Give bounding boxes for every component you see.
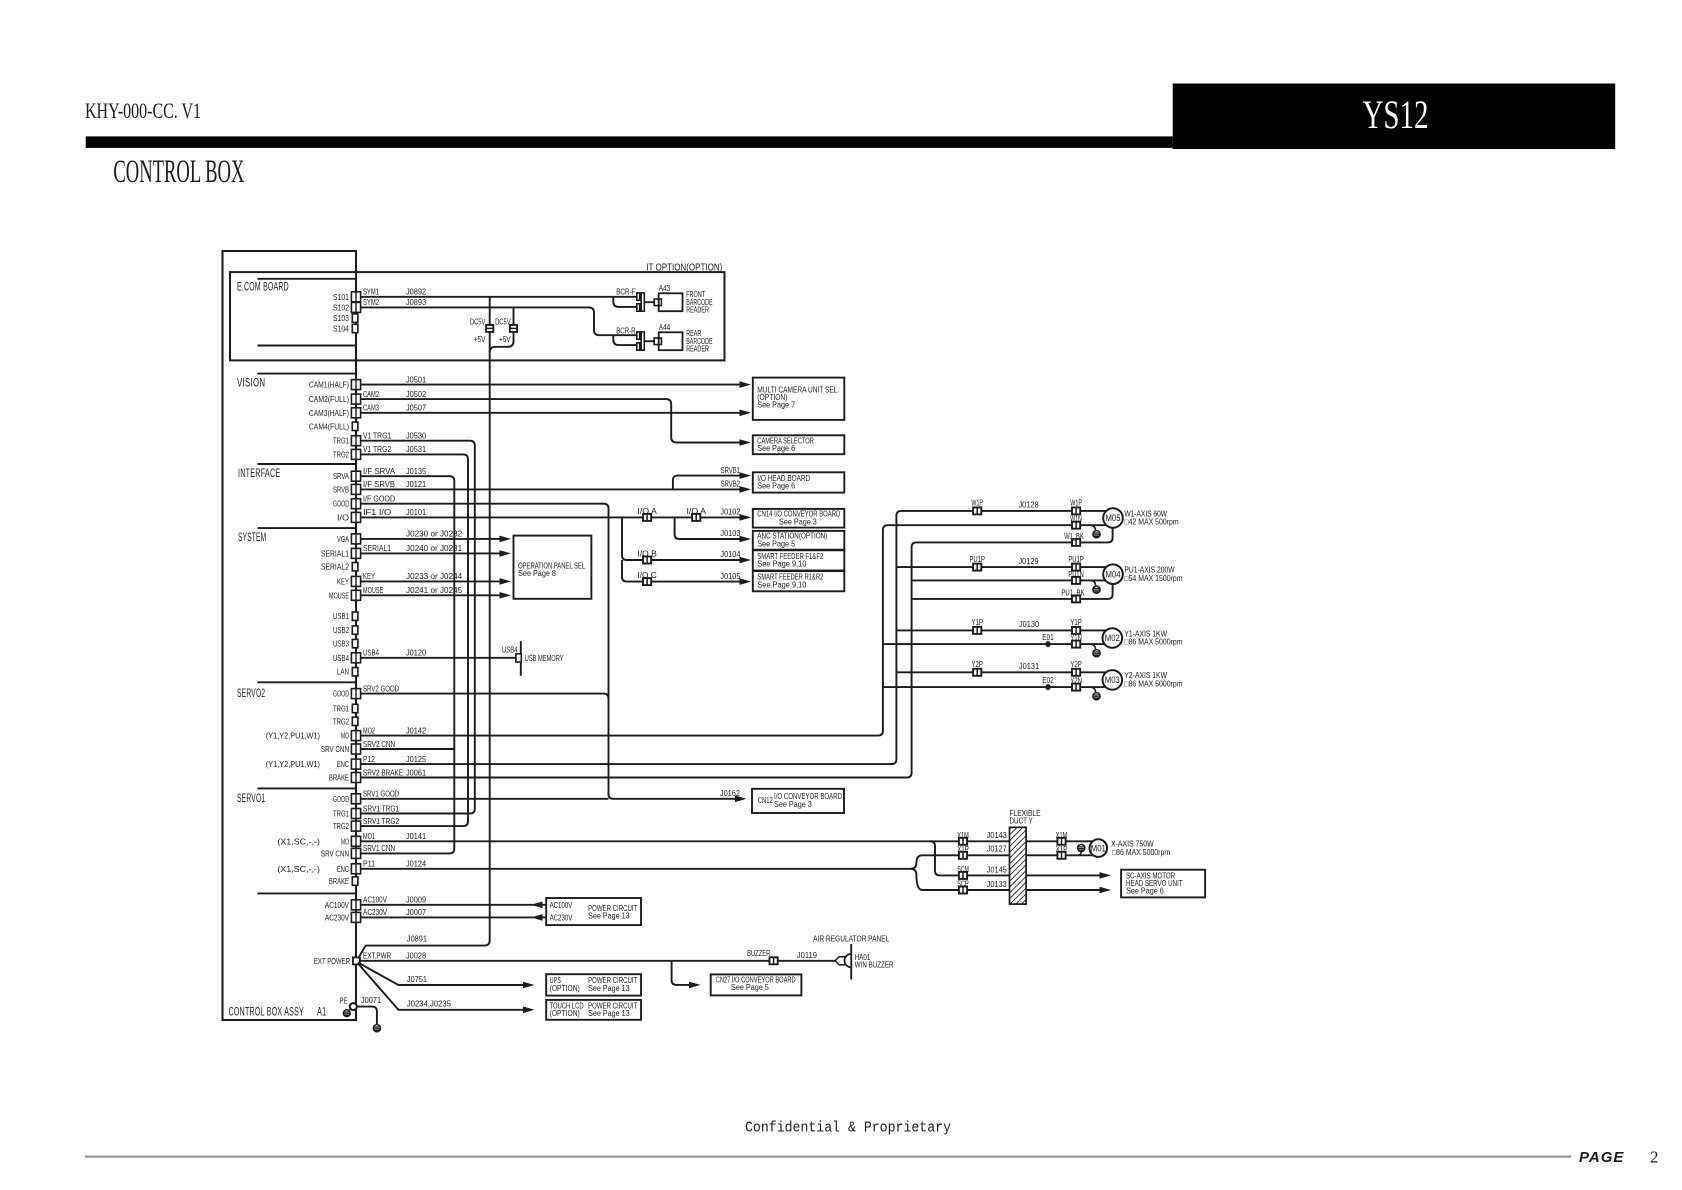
svg-text:TRG1: TRG1 bbox=[333, 704, 349, 714]
svg-text:SERIAL2: SERIAL2 bbox=[321, 562, 349, 572]
pin AC100V y=904.8 bbox=[351, 900, 360, 910]
svg-text:M03: M03 bbox=[1105, 675, 1120, 685]
svg-text:E.COM BOARD: E.COM BOARD bbox=[237, 282, 289, 294]
wire DC5V branch from SYM2 bbox=[490, 307, 514, 352]
svg-text:SRV1 TRG1: SRV1 TRG1 bbox=[363, 803, 399, 813]
connector I/O A no1 bbox=[643, 514, 651, 521]
svg-text:CAM2(FULL): CAM2(FULL) bbox=[309, 394, 349, 404]
pin VGA y=538.9 bbox=[351, 534, 360, 544]
wire BCR-R to A44 bbox=[644, 340, 654, 342]
pin BRAKE y=881.1 bbox=[352, 877, 358, 885]
svg-text:V1 TRG1: V1 TRG1 bbox=[363, 431, 391, 441]
svg-text:AC100V: AC100V bbox=[550, 901, 573, 910]
ground at M02 bbox=[1090, 644, 1096, 649]
svg-text:SRV1 CNN: SRV1 CNN bbox=[363, 843, 395, 853]
svg-text:J0162: J0162 bbox=[720, 788, 740, 798]
connector Y2N bbox=[1072, 684, 1080, 691]
svg-text:See Page 7: See Page 7 bbox=[757, 401, 795, 410]
svg-text:TRG2: TRG2 bbox=[333, 449, 349, 459]
wire SRV2 CNN joins rail bbox=[361, 748, 455, 750]
svg-text:See Page 5: See Page 5 bbox=[757, 539, 795, 548]
wire rail C branch PU1N bbox=[912, 579, 1106, 581]
UPS power circuit box bbox=[546, 974, 641, 995]
pin BRAKE y=777.5 bbox=[351, 773, 360, 783]
svg-text:DC5V: DC5V bbox=[495, 318, 511, 327]
svg-text:USB1: USB1 bbox=[333, 611, 349, 621]
camera selector box bbox=[753, 435, 845, 454]
svg-text:SCM: SCM bbox=[957, 865, 969, 874]
wire I/F GOOD down rail to CN12 bbox=[361, 504, 742, 799]
svg-text:J0121: J0121 bbox=[406, 479, 426, 489]
svg-text:□54 MAX 1500rpm: □54 MAX 1500rpm bbox=[1124, 574, 1182, 583]
wire V1 TRG2 J0531 loop to SRV1 TRG2 bbox=[361, 454, 469, 826]
svg-text:J0131: J0131 bbox=[1019, 661, 1039, 671]
svg-text:□86 MAX 5000rpm: □86 MAX 5000rpm bbox=[1124, 638, 1182, 647]
pin MOUSE y=595.3 bbox=[351, 590, 360, 600]
rear barcode reader box bbox=[659, 332, 683, 350]
svg-text:AIR REGULATOR PANEL: AIR REGULATOR PANEL bbox=[813, 933, 889, 943]
wire rail A branch Y1N bbox=[883, 643, 1105, 645]
svg-text:See Page 13: See Page 13 bbox=[588, 1009, 630, 1018]
svg-text:W1N: W1N bbox=[1070, 515, 1082, 524]
connector I/O C bbox=[643, 578, 651, 585]
junction dot E02 bbox=[1045, 684, 1050, 690]
ground at PE terminal bbox=[348, 1009, 351, 1011]
svg-text:See Page 8: See Page 8 bbox=[518, 569, 556, 578]
svg-text:USB2: USB2 bbox=[333, 625, 349, 635]
svg-text:Y2P: Y2P bbox=[1070, 660, 1082, 669]
svg-text:J0120: J0120 bbox=[406, 648, 426, 658]
connector I/O B bbox=[643, 557, 651, 564]
svg-text:CAM3: CAM3 bbox=[363, 403, 379, 413]
svg-text:See Page 5: See Page 5 bbox=[731, 983, 769, 992]
svg-text:E02: E02 bbox=[1042, 676, 1054, 685]
connector BCR-F bbox=[637, 293, 645, 311]
svg-text:KEY: KEY bbox=[337, 576, 349, 586]
svg-text:I/F SRVA: I/F SRVA bbox=[363, 466, 395, 476]
svg-text:I/O: I/O bbox=[337, 512, 349, 522]
touch LCD power circuit box bbox=[546, 1000, 641, 1020]
pin GOOD y=693.6 bbox=[351, 689, 360, 699]
pin MO y=841.3 bbox=[351, 836, 360, 846]
front barcode reader box bbox=[659, 293, 683, 311]
section divider VISION top bbox=[258, 373, 357, 375]
pin S101 y=296.8 bbox=[351, 292, 360, 302]
svg-text:J0124: J0124 bbox=[406, 859, 426, 869]
connector Y2P upstream bbox=[973, 669, 981, 676]
svg-text:J0234,J0235: J0234,J0235 bbox=[407, 999, 451, 1009]
svg-text:I/F SRVB: I/F SRVB bbox=[363, 479, 395, 489]
connector PU1_BK bbox=[1072, 595, 1080, 602]
wire branch to ANC station J0103 bbox=[675, 517, 746, 539]
svg-text:See Page 6: See Page 6 bbox=[1126, 887, 1164, 896]
svg-text:See Page 9,10: See Page 9,10 bbox=[757, 580, 807, 589]
pin GOOD y=798.8 bbox=[351, 794, 360, 804]
svg-text:See Page 6: See Page 6 bbox=[757, 444, 795, 453]
svg-text:SRVB2: SRVB2 bbox=[721, 480, 741, 489]
svg-text:ENC: ENC bbox=[337, 864, 349, 874]
pin LAN y=671.7 bbox=[352, 668, 358, 676]
svg-text:J0071: J0071 bbox=[361, 995, 381, 1005]
svg-text:PE: PE bbox=[340, 996, 348, 1005]
svg-text:PU1N: PU1N bbox=[1068, 570, 1084, 579]
svg-text:USB MEMORY: USB MEMORY bbox=[525, 654, 564, 663]
I/O head board box bbox=[753, 472, 845, 492]
svg-text:SCP: SCP bbox=[957, 880, 969, 889]
svg-text:X1M: X1M bbox=[1056, 831, 1068, 840]
svg-text:S104: S104 bbox=[333, 324, 349, 334]
wire branch to SCM J0145 bbox=[930, 841, 1105, 875]
pin TRG1 y=813.5 bbox=[351, 809, 360, 819]
wire SRVB1 branch bbox=[673, 476, 746, 490]
wire MO1 J0141 to X1M and M01 bbox=[361, 840, 1094, 842]
YS12 model badge bbox=[1173, 84, 1616, 150]
wire branch to I/O B and I/O C bbox=[622, 517, 746, 560]
svg-text:W1_BK: W1_BK bbox=[1064, 532, 1084, 541]
svg-text:SERVO2: SERVO2 bbox=[237, 688, 265, 700]
svg-text:J0028: J0028 bbox=[406, 951, 426, 961]
svg-text:M01: M01 bbox=[1091, 843, 1106, 853]
svg-text:ENC: ENC bbox=[337, 759, 349, 769]
svg-text:S101: S101 bbox=[333, 292, 349, 302]
svg-text:□42 MAX 500rpm: □42 MAX 500rpm bbox=[1124, 518, 1178, 527]
CN14 I/O conveyor board box bbox=[753, 509, 845, 528]
svg-text:PU1_BK: PU1_BK bbox=[1061, 588, 1085, 597]
connector W1_BK bbox=[1072, 539, 1080, 546]
svg-text:X1P: X1P bbox=[1056, 845, 1068, 854]
svg-text:J0133: J0133 bbox=[987, 879, 1007, 889]
pin USB2 y=630.1 bbox=[352, 626, 358, 634]
svg-text:□86 MAX 5000rpm: □86 MAX 5000rpm bbox=[1112, 848, 1170, 857]
wire I/F SRVB to I/O head board SRVB2 bbox=[361, 488, 747, 490]
smart feeder R1R2 box bbox=[753, 571, 845, 591]
svg-text:See Page 6: See Page 6 bbox=[757, 482, 795, 491]
control box assy A1 outline bbox=[223, 251, 357, 1020]
svg-text:SRVB: SRVB bbox=[333, 484, 349, 494]
svg-text:CN12: CN12 bbox=[758, 796, 774, 805]
IT OPTION enclosure box bbox=[230, 272, 725, 360]
svg-text:J0104: J0104 bbox=[720, 549, 740, 559]
connector X1M motorside bbox=[1057, 838, 1065, 845]
svg-text:CAM2: CAM2 bbox=[363, 389, 379, 399]
wire PE to earth bbox=[357, 1007, 377, 1025]
svg-text:E01: E01 bbox=[1042, 633, 1054, 642]
CN27 I/O conveyor board box bbox=[711, 974, 802, 995]
svg-text:SERIAL1: SERIAL1 bbox=[321, 548, 349, 558]
svg-text:USB3: USB3 bbox=[333, 639, 349, 649]
svg-text:(Y1,Y2,PU1,W1): (Y1,Y2,PU1,W1) bbox=[266, 732, 320, 741]
connector PU1P motorside bbox=[1072, 564, 1080, 571]
svg-text:USB4: USB4 bbox=[363, 648, 379, 658]
svg-text:SYM2: SYM2 bbox=[363, 297, 379, 307]
operation panel sel box bbox=[514, 536, 592, 599]
svg-text:VGA: VGA bbox=[337, 534, 349, 544]
connector Y1N bbox=[1072, 641, 1080, 648]
wire AC100V J0009 from power circuit bbox=[361, 904, 547, 906]
svg-text:SRV1 GOOD: SRV1 GOOD bbox=[363, 789, 399, 799]
wire P11 fork down to SCP bbox=[911, 869, 1106, 890]
pin TRG2 y=826.1 bbox=[351, 821, 360, 831]
pin SRV CNN y=749.0 bbox=[351, 744, 360, 754]
svg-text:(X1,SC,-,-): (X1,SC,-,-) bbox=[277, 837, 320, 846]
earth ground symbol bbox=[373, 1025, 380, 1032]
svg-text:GOOD: GOOD bbox=[333, 794, 349, 804]
svg-text:See Page 3: See Page 3 bbox=[779, 517, 817, 526]
svg-text:J0531: J0531 bbox=[406, 444, 426, 454]
wire SERIAL1 to operation panel bbox=[361, 552, 506, 554]
svg-text:J0143: J0143 bbox=[987, 830, 1007, 840]
wire SRV2 BRAKE J0061 rail C to W1_BK PU1N PU1_BK bbox=[361, 528, 1113, 778]
svg-text:(X1,SC,-,-): (X1,SC,-,-) bbox=[277, 865, 320, 874]
svg-text:M04: M04 bbox=[1106, 569, 1121, 579]
svg-text:YS12: YS12 bbox=[1363, 92, 1429, 137]
svg-text:I/O C: I/O C bbox=[637, 571, 656, 580]
svg-text:SRVA: SRVA bbox=[333, 471, 349, 481]
svg-text:TRG2: TRG2 bbox=[333, 821, 349, 831]
svg-text:M05: M05 bbox=[1106, 513, 1121, 523]
PE terminal bbox=[350, 1003, 357, 1010]
pin A44 bbox=[654, 338, 661, 345]
svg-text:LAN: LAN bbox=[337, 667, 349, 677]
connector DC5V no1 bbox=[486, 325, 493, 332]
svg-text:S103: S103 bbox=[333, 313, 349, 323]
pin CAM3(HALF) y=412.8 bbox=[351, 408, 360, 418]
wire rail B branch PU1P bbox=[896, 566, 1105, 568]
svg-text:J0135: J0135 bbox=[406, 466, 426, 476]
connector SCM bbox=[959, 872, 967, 879]
wire J0751 to UPS power circuit bbox=[358, 963, 529, 986]
svg-text:PAGE: PAGE bbox=[1579, 1149, 1624, 1166]
wire I/F SRVA loop to SRV CNN rail bbox=[361, 476, 455, 853]
section divider SERVO2 top bbox=[258, 681, 357, 683]
section divider SERVO1 top bbox=[258, 787, 357, 789]
node DC5V vertical rail bbox=[489, 297, 491, 941]
svg-text:I/O A: I/O A bbox=[637, 507, 657, 516]
pin ENC y=764.1 bbox=[351, 759, 360, 769]
wire MOUSE to operation panel bbox=[361, 594, 506, 596]
svg-text:+5V: +5V bbox=[474, 335, 486, 344]
svg-text:X1M: X1M bbox=[957, 831, 969, 840]
svg-text:SRV1 TRG2: SRV1 TRG2 bbox=[363, 816, 399, 826]
wire IF1 I/O J0101 to CN14 bbox=[361, 516, 747, 518]
svg-text:CONTROL BOX: CONTROL BOX bbox=[113, 154, 244, 190]
wire KEY to operation panel bbox=[361, 580, 506, 582]
wire EXT.PWR J0028 to buzzer bbox=[361, 960, 836, 962]
ground at M01 bbox=[1077, 852, 1082, 856]
svg-text:A43: A43 bbox=[659, 284, 671, 293]
svg-text:W1P: W1P bbox=[1070, 499, 1082, 508]
svg-text:J0893: J0893 bbox=[406, 297, 426, 307]
wire V1 TRG1 J0530 loop to SRV1 TRG1 bbox=[361, 441, 475, 814]
USB memory stick symbol bbox=[520, 641, 522, 676]
svg-text:J0141: J0141 bbox=[406, 831, 426, 841]
wire rail B branch Y2P bbox=[896, 671, 1106, 673]
wire AC230V J0007 from power circuit bbox=[361, 916, 547, 918]
svg-text:I/O A: I/O A bbox=[687, 507, 707, 516]
smart feeder F1F2 box bbox=[753, 550, 845, 570]
svg-text:BRAKE: BRAKE bbox=[329, 876, 349, 886]
pin KEY y=581.4 bbox=[351, 576, 360, 586]
wire rail B branch Y1P bbox=[896, 629, 1106, 631]
wire SYM1 J0892 to BCR-F bbox=[361, 296, 637, 298]
svg-text:AC100V: AC100V bbox=[325, 900, 349, 910]
pin S104 y=328.5 bbox=[352, 324, 358, 332]
multi camera unit sel box bbox=[753, 378, 845, 420]
svg-text:J0501: J0501 bbox=[406, 374, 426, 384]
motor M02 bbox=[1103, 628, 1123, 648]
svg-text:MOUSE: MOUSE bbox=[329, 590, 349, 600]
pin SERIAL2 y=566.7 bbox=[352, 563, 358, 571]
wire SRV2 GOOD joins GOOD rail bbox=[361, 694, 609, 699]
svg-text:+5V: +5V bbox=[499, 335, 511, 344]
svg-text:(OPTION): (OPTION) bbox=[550, 1009, 580, 1018]
wire SYM2 J0893 to BCR-R bbox=[361, 307, 637, 335]
svg-text:IT OPTION(OPTION): IT OPTION(OPTION) bbox=[646, 263, 722, 274]
svg-text:P12: P12 bbox=[363, 754, 375, 764]
junction dot E01 bbox=[1045, 641, 1050, 647]
svg-text:USB4: USB4 bbox=[502, 646, 518, 655]
connector X1P motorside bbox=[1057, 852, 1065, 859]
connector X1M upstream bbox=[959, 838, 967, 845]
svg-text:Y1P: Y1P bbox=[971, 618, 983, 627]
wire CAM3 J0507 to multi camera unit bbox=[361, 412, 747, 414]
pin A43 bbox=[654, 299, 661, 306]
wire J0891 from EXT POWER to DC5V rail bbox=[358, 940, 490, 958]
connector PU1N bbox=[1072, 577, 1080, 584]
wire rail C branch PU1_BK bbox=[912, 584, 1113, 599]
pin USB3 y=643.6 bbox=[352, 639, 358, 647]
svg-text:Y2P: Y2P bbox=[971, 660, 983, 669]
svg-text:SERIAL1: SERIAL1 bbox=[363, 543, 391, 553]
svg-text:J0891: J0891 bbox=[407, 934, 427, 944]
svg-text:Y1N: Y1N bbox=[1070, 634, 1082, 643]
svg-text:A1: A1 bbox=[317, 1007, 326, 1019]
footer rule bbox=[85, 1155, 1571, 1157]
svg-text:CAM4(FULL): CAM4(FULL) bbox=[309, 421, 349, 431]
pin CAM2(FULL) y=399.1 bbox=[351, 394, 360, 404]
pin S103 y=318.1 bbox=[352, 314, 358, 322]
wire BCR-F to A43 bbox=[644, 301, 654, 303]
svg-text:J0061: J0061 bbox=[406, 767, 426, 777]
svg-text:PU1P: PU1P bbox=[1068, 555, 1084, 564]
motor M03 bbox=[1103, 670, 1123, 690]
svg-text:J0125: J0125 bbox=[406, 754, 426, 764]
svg-text:X1P: X1P bbox=[957, 845, 969, 854]
wire J0234 J0235 to touch LCD power circuit bbox=[358, 964, 529, 1010]
svg-text:SRV CNN: SRV CNN bbox=[321, 744, 349, 754]
svg-text:SRV2 BRAKE: SRV2 BRAKE bbox=[363, 767, 403, 777]
svg-text:EXT POWER: EXT POWER bbox=[314, 956, 350, 966]
svg-text:VISION: VISION bbox=[237, 378, 265, 390]
svg-text:A44: A44 bbox=[659, 323, 671, 332]
svg-text:See Page 13: See Page 13 bbox=[588, 984, 630, 993]
svg-text:BCR-R: BCR-R bbox=[616, 327, 635, 336]
pin SRVA y=476.2 bbox=[351, 471, 360, 481]
power circuit box bbox=[546, 898, 641, 925]
svg-text:CAM1(HALF): CAM1(HALF) bbox=[309, 380, 349, 390]
svg-text:TRG1: TRG1 bbox=[333, 809, 349, 819]
svg-text:EXT.PWR: EXT.PWR bbox=[363, 951, 391, 961]
svg-text:DUCT Y: DUCT Y bbox=[1010, 817, 1034, 826]
svg-text:I/O B: I/O B bbox=[637, 550, 657, 559]
svg-text:J0127: J0127 bbox=[987, 844, 1007, 854]
svg-text:See Page 9,10: See Page 9,10 bbox=[757, 560, 807, 569]
connector BUZZER bbox=[770, 957, 778, 964]
svg-text:KHY-000-CC. V1: KHY-000-CC. V1 bbox=[85, 98, 201, 123]
pin TRG1 y=708.5 bbox=[352, 704, 358, 712]
svg-text:Confidential & Proprietary: Confidential & Proprietary bbox=[745, 1120, 951, 1137]
svg-text:SRVB1: SRVB1 bbox=[721, 466, 741, 475]
wire MO2 J0142 rail A to W1N Y1N Y2N bbox=[361, 525, 1107, 735]
svg-text:J0142: J0142 bbox=[406, 725, 426, 735]
svg-text:SRV CNN: SRV CNN bbox=[321, 848, 349, 858]
svg-text:SYSTEM: SYSTEM bbox=[238, 532, 266, 544]
svg-text:READER: READER bbox=[686, 344, 709, 353]
pin SRVB y=489.4 bbox=[351, 484, 360, 494]
svg-text:CAM3(HALF): CAM3(HALF) bbox=[309, 408, 349, 418]
pin MO y=735.6 bbox=[351, 731, 360, 741]
svg-text:KEY: KEY bbox=[363, 571, 375, 581]
connector W1P motorside bbox=[1072, 507, 1080, 514]
pin EXT POWER bbox=[353, 957, 360, 964]
ground at M04 bbox=[1090, 580, 1096, 585]
svg-text:SERVO1: SERVO1 bbox=[237, 793, 265, 805]
air regulator panel boundary bbox=[850, 944, 852, 980]
svg-text:S102: S102 bbox=[333, 302, 349, 312]
svg-text:AC230V: AC230V bbox=[363, 907, 387, 917]
svg-text:J0130: J0130 bbox=[1019, 619, 1039, 629]
wire CAM2 J0502 to camera selector bbox=[361, 399, 747, 442]
connector W1N bbox=[1072, 522, 1080, 529]
svg-text:TRG1: TRG1 bbox=[333, 436, 349, 446]
CN12 I/O conveyor board box bbox=[752, 789, 844, 813]
svg-text:J0009: J0009 bbox=[406, 895, 426, 905]
pin CAM4(FULL) y=426.3 bbox=[352, 422, 358, 430]
pin CAM1(HALF) y=384.6 bbox=[351, 380, 360, 390]
svg-text:(Y1,Y2,PU1,W1): (Y1,Y2,PU1,W1) bbox=[266, 760, 320, 769]
svg-text:MO: MO bbox=[341, 731, 349, 741]
svg-text:I/F GOOD: I/F GOOD bbox=[363, 494, 395, 504]
pin USB1 y=616.2 bbox=[352, 612, 358, 620]
wire branch to CN27 bbox=[672, 961, 695, 985]
svg-text:SRV2 CNN: SRV2 CNN bbox=[363, 739, 395, 749]
svg-text:J0751: J0751 bbox=[407, 974, 427, 984]
pin TRG1 y=440.7 bbox=[351, 436, 360, 446]
svg-text:CONTROL BOX ASSY: CONTROL BOX ASSY bbox=[229, 1007, 304, 1019]
motor M04 bbox=[1103, 564, 1123, 584]
connector Y1P upstream bbox=[973, 627, 981, 634]
svg-text:W1P: W1P bbox=[971, 499, 983, 508]
svg-text:PU1P: PU1P bbox=[969, 555, 985, 564]
wire CAM1 J0501 to multi camera unit bbox=[361, 384, 747, 386]
svg-text:2: 2 bbox=[1650, 1148, 1659, 1167]
svg-text:(OPTION): (OPTION) bbox=[550, 984, 580, 993]
connector W1P upstream bbox=[973, 507, 981, 514]
svg-text:GOOD: GOOD bbox=[333, 499, 349, 509]
pin SERIAL1 y=553.4 bbox=[351, 548, 360, 558]
svg-text:MO1: MO1 bbox=[363, 831, 375, 841]
svg-text:AC100V: AC100V bbox=[363, 895, 387, 905]
connector Y1P motorside bbox=[1072, 627, 1080, 634]
svg-text:J0102: J0102 bbox=[720, 506, 740, 516]
svg-text:BRAKE: BRAKE bbox=[329, 773, 349, 783]
svg-text:□86 MAX 5000rpm: □86 MAX 5000rpm bbox=[1124, 679, 1182, 688]
ground at M05 bbox=[1090, 525, 1096, 530]
ground at M03 bbox=[1090, 687, 1096, 692]
svg-text:V1 TRG2: V1 TRG2 bbox=[363, 444, 391, 454]
svg-text:J0105: J0105 bbox=[720, 571, 740, 581]
svg-text:MO2: MO2 bbox=[363, 725, 375, 735]
